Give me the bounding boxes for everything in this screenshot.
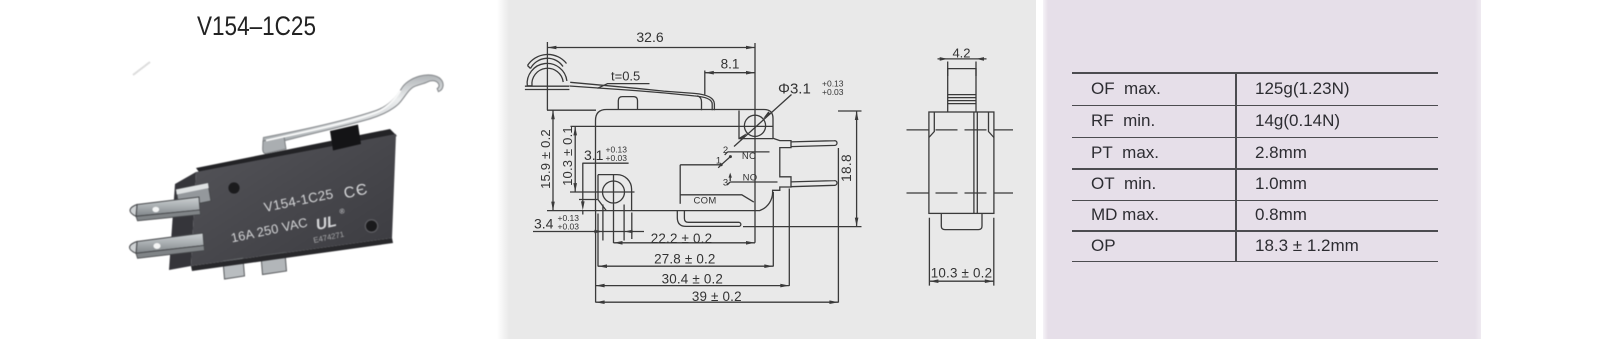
dim 18.8 [856,111,858,227]
label 3.4 [534,213,579,232]
label 3.1 [584,145,627,164]
lever end inner bend [697,96,702,110]
cover seam line [571,125,773,127]
dim 10.3 [574,126,576,192]
svg-text:COM: COM [694,196,717,207]
svg-text:NO: NO [743,173,758,184]
svg-text:18.8: 18.8 [839,154,854,182]
dim 8.1 [705,72,755,74]
svg-text:+0.03: +0.03 [558,222,580,232]
lug outline top-right [739,111,773,139]
svg-text:10.3 ± 0.2: 10.3 ± 0.2 [931,266,992,281]
terminal centerlines [907,129,1014,131]
plunger side view [948,69,976,112]
lever flat tab lines [525,85,569,87]
lever left end fold [263,137,286,154]
dim 27.8 [598,265,773,267]
pink table panel background [1043,0,1481,339]
lever blade [570,82,714,110]
COM label [694,196,717,207]
svg-text:2: 2 [723,145,728,156]
svg-text:Φ3.1: Φ3.1 [778,81,811,98]
svg-text:32.6: 32.6 [636,29,663,45]
svg-text:3: 3 [723,178,728,189]
diameter leader line [734,95,792,147]
dim 30.4 [596,285,790,287]
moving contact blade [721,157,730,165]
dim 10.3 +- 0.2 [929,218,993,286]
svg-text:1: 1 [716,156,721,167]
svg-text:30.4 ± 0.2: 30.4 ± 0.2 [662,272,723,287]
lug outline bottom-left [598,175,632,211]
dim 32.6 [547,47,755,49]
NC contact line [728,151,770,153]
internal cavity outline [680,164,721,166]
svg-text:+0.03: +0.03 [822,87,844,97]
terminal bottom [130,233,205,258]
svg-text:15.9 ± 0.2: 15.9 ± 0.2 [538,129,553,189]
terminal mid [130,197,201,221]
COM terminal pin [677,211,741,227]
lever curl upper (released position) [528,54,567,65]
terminal back [176,183,211,208]
terminal digits [716,145,758,189]
printed texts on body [230,181,371,246]
switch body outline (front view) [596,110,792,211]
dim 4.2 [938,58,987,60]
plunger black button [330,125,361,151]
body side view [929,112,994,213]
body top face [196,129,397,176]
plunger bump (front view) [618,97,637,110]
lever arm with hook [263,75,443,145]
mounting hole bottom-left [603,181,625,203]
dim 39 [596,301,839,303]
svg-text:t=0.5: t=0.5 [611,69,640,84]
hole front bottom-right [365,220,377,232]
body left dark face [169,172,196,270]
lever highlight [266,91,401,141]
svg-text:NC: NC [742,151,756,162]
svg-text:4.2: 4.2 [952,46,970,61]
terminal pin 1 [791,141,837,147]
label dia 3.1 [778,79,844,98]
faint scratch top-left [133,62,150,75]
gray drawing panel background [497,0,1036,339]
lever curl lower (solid position) [527,63,567,85]
row texts [1091,79,1161,99]
label t=0.5 [611,69,640,84]
dim 15.9 [552,110,554,210]
bottom metal staple left [223,258,245,279]
vertical divider [1235,72,1237,262]
svg-text:3.4: 3.4 [534,216,554,232]
svg-text:27.8 ± 0.2: 27.8 ± 0.2 [654,252,715,267]
bottom metal staple right [261,253,287,275]
svg-text:39 ± 0.2: 39 ± 0.2 [692,289,742,304]
mounting hole top-right [744,115,765,136]
body front face [191,134,396,266]
horizontal table lines [1072,72,1438,74]
body bottom edge shade [191,238,393,271]
NO contact line [730,181,778,183]
bottom protrusion [941,213,982,229]
title V154-1C25 [197,11,316,42]
NO direction arrow [729,177,731,182]
dim 22.2 [614,242,756,244]
svg-text:22.2 ± 0.2: 22.2 ± 0.2 [651,231,712,246]
svg-text:10.3 ± 0.1: 10.3 ± 0.1 [560,126,575,186]
svg-text:8.1: 8.1 [721,57,740,72]
svg-text:+0.03: +0.03 [606,153,628,163]
hole front top-left [228,182,239,193]
short ext line left of lug [579,199,598,201]
terminal pin 2 [791,181,837,187]
svg-text:3.1: 3.1 [584,147,604,163]
hole centerline vertical [754,43,756,243]
